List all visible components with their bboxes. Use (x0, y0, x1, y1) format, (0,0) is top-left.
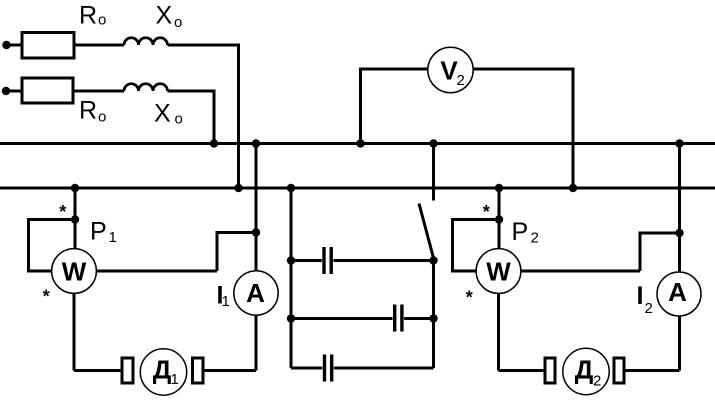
svg-text:I: I (637, 282, 644, 310)
svg-text:P: P (512, 218, 529, 246)
svg-text:Д: Д (153, 355, 172, 385)
svg-text:X: X (156, 2, 173, 30)
svg-text:*: * (59, 202, 66, 222)
svg-text:R: R (79, 2, 97, 30)
svg-text:P: P (90, 218, 107, 246)
svg-text:1: 1 (109, 229, 117, 246)
svg-text:W: W (62, 257, 87, 287)
svg-text:2: 2 (593, 373, 601, 390)
svg-text:1: 1 (222, 293, 230, 310)
svg-text:W: W (486, 257, 511, 287)
svg-text:R: R (79, 97, 97, 125)
svg-text:1: 1 (171, 371, 179, 388)
svg-text:A: A (246, 278, 265, 308)
svg-text:A: A (668, 277, 687, 307)
svg-text:X: X (154, 100, 171, 128)
svg-text:Д: Д (575, 355, 594, 385)
svg-text:2: 2 (457, 72, 465, 89)
svg-text:2: 2 (645, 300, 653, 317)
svg-text:o: o (98, 12, 106, 29)
svg-text:*: * (483, 202, 490, 222)
svg-text:*: * (43, 287, 50, 307)
svg-text:o: o (175, 111, 183, 128)
svg-text:2: 2 (531, 230, 539, 247)
svg-text:o: o (98, 109, 106, 126)
svg-text:o: o (174, 14, 182, 31)
svg-text:*: * (466, 288, 473, 308)
